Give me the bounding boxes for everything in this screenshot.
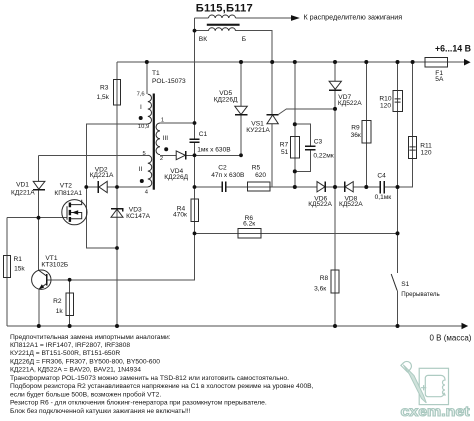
diode VD6 xyxy=(317,182,325,192)
svg-text:R3: R3 xyxy=(100,84,109,91)
transformer T1 core xyxy=(153,94,155,190)
cxem.net watermark logo xyxy=(401,361,471,419)
svg-text:R7: R7 xyxy=(280,141,289,148)
junction node source net corner xyxy=(115,246,119,250)
resistor R11 inner dashes xyxy=(409,147,415,150)
svg-text:КД522А: КД522А xyxy=(308,201,332,208)
capacitor C2 xyxy=(222,182,226,193)
diode VD1 xyxy=(33,181,45,189)
svg-text:0 В (масса): 0 В (масса) xyxy=(430,333,472,342)
transistor VT2 source arrow xyxy=(72,210,78,215)
svg-text:R2: R2 xyxy=(53,298,62,305)
transformer T1 winding II xyxy=(148,155,152,187)
resistor R11 xyxy=(409,136,417,158)
svg-text:120: 120 xyxy=(421,150,432,157)
wire R6 horizontal y=233.4 xyxy=(195,232,398,234)
svg-text:К распределителю зажигания: К распределителю зажигания xyxy=(304,13,403,22)
svg-text:1,5k: 1,5k xyxy=(97,94,110,101)
wire R11 line x=412.6 xyxy=(398,62,413,187)
svg-text:1мк x 630В: 1мк x 630В xyxy=(197,146,231,153)
wire C3 parallel loop xyxy=(295,124,311,171)
svg-text:Блок без подключенной катушки: Блок без подключенной катушки зажигания … xyxy=(10,407,191,415)
thyristor VS1 xyxy=(267,114,279,116)
diode VD7 xyxy=(329,81,341,89)
svg-text:КС147А: КС147А xyxy=(126,213,151,220)
svg-text:R11: R11 xyxy=(420,142,432,149)
transformer T1 winding III xyxy=(156,123,160,155)
wire VT2 gate / R1 top xyxy=(7,218,67,326)
wire y=187 center segment C2 R5 VD6 VD8 C4 xyxy=(195,186,413,188)
svg-text:C3: C3 xyxy=(314,138,323,145)
svg-text:КД226Д = FR306, FR307, BY500: КД226Д = FR306, FR307, BY500-800, BY500-… xyxy=(10,358,160,365)
svg-text:КД226Д: КД226Д xyxy=(164,174,188,181)
resistor R6 xyxy=(238,229,261,239)
svg-text:R10: R10 xyxy=(379,95,391,102)
wire VD1/VT1 collector line x=38.5 xyxy=(38,155,40,270)
transistor VT1 internals xyxy=(39,270,47,276)
junction nodes R7 C3 xyxy=(293,122,297,126)
wire winding I bottom to VT2 drain net x=86.3 xyxy=(86,124,148,248)
wire R10 line x=397.5 xyxy=(397,62,399,187)
svg-text:cxem.net: cxem.net xyxy=(401,404,471,419)
svg-text:C4: C4 xyxy=(377,173,386,180)
transformer T1 polarity dot winding I xyxy=(139,116,143,120)
resistor R10 xyxy=(393,91,403,112)
switch S1 blade xyxy=(391,274,397,290)
svg-text:POL-15073: POL-15073 xyxy=(152,78,186,85)
svg-text:C1: C1 xyxy=(199,131,208,138)
svg-text:КТ3102Б: КТ3102Б xyxy=(41,262,68,269)
capacitor C1 xyxy=(189,139,199,142)
svg-text:51: 51 xyxy=(281,149,289,156)
transistor VT2 channel dashes xyxy=(69,203,71,222)
svg-text:5: 5 xyxy=(143,151,146,157)
svg-text:S1: S1 xyxy=(401,281,409,288)
svg-text:1: 1 xyxy=(161,118,164,124)
svg-text:КП812А1: КП812А1 xyxy=(54,190,82,197)
wire R7 line x=294.8 xyxy=(294,62,296,187)
svg-text:VT2: VT2 xyxy=(60,183,72,190)
capacitor C4 xyxy=(380,181,384,193)
capacitor C3 xyxy=(305,146,316,150)
svg-text:C2: C2 xyxy=(218,165,227,172)
svg-text:5А: 5А xyxy=(435,76,444,83)
junction node VT2 gate / VD1 line xyxy=(37,216,41,220)
junction node VS1 gate / VD7 xyxy=(333,107,337,111)
svg-text:R1: R1 xyxy=(14,256,23,263)
svg-text:КД522А: КД522А xyxy=(338,100,362,107)
arrow ground bus xyxy=(462,323,469,330)
svg-text:Резистор R6 - для отключения б: Резистор R6 - для отключения блокинг-ген… xyxy=(10,399,267,407)
diode VD5 xyxy=(235,106,248,114)
svg-text:R9: R9 xyxy=(351,124,360,131)
transistor VT2 source link xyxy=(71,213,82,219)
wire VD7 R8 line x=335 xyxy=(334,62,336,326)
resistor R7 xyxy=(290,136,299,158)
resistor R10 inner dashes xyxy=(395,99,401,102)
resistor R8 xyxy=(331,270,339,293)
wire R9 line x=366.3 xyxy=(365,62,367,187)
wire coil primary leads xyxy=(195,31,273,62)
zener diode VD3 xyxy=(111,209,123,217)
svg-text:470к: 470к xyxy=(173,212,187,219)
resistor R9 xyxy=(362,120,371,143)
wire VD5 line x=241 xyxy=(240,62,242,155)
svg-text:R5: R5 xyxy=(252,165,261,172)
diode VD8 xyxy=(345,182,353,192)
svg-text:Предпочтительная замена импорт: Предпочтительная замена импортными анало… xyxy=(10,334,171,341)
wire R3/VD3 vertical line x=117 xyxy=(116,62,118,326)
svg-text:47п x 630В: 47п x 630В xyxy=(211,172,245,179)
transformer T1 winding I xyxy=(148,94,152,124)
svg-text:ВК: ВК xyxy=(199,36,207,43)
junction nodes on supply bus xyxy=(145,60,149,64)
resistor R2 xyxy=(66,293,74,316)
junction node VT1 base / R2 xyxy=(68,278,72,282)
svg-text:КУ221Д = ВТ151-500R, ВТ151-6: КУ221Д = ВТ151-500R, ВТ151-650R xyxy=(10,350,120,357)
svg-text:R8: R8 xyxy=(320,275,329,282)
svg-text:VD1: VD1 xyxy=(16,181,29,188)
svg-text:КД221А: КД221А xyxy=(11,190,35,197)
wire VS1 anode-cathode line x=272.2 xyxy=(271,62,273,187)
junction nodes ground bus xyxy=(37,324,41,328)
wire coil secondary left stub xyxy=(195,17,209,19)
fuse F1 xyxy=(425,58,448,68)
wire winding III pin1 to C1 line xyxy=(160,122,195,124)
ignition coil core xyxy=(207,24,240,26)
resistor R4 xyxy=(191,199,199,222)
junction nodes on wire y=187 xyxy=(84,185,88,189)
svg-text:КП812А1 = IRF1407, IRF2807, IR: КП812А1 = IRF1407, IRF2807, IRF3808 xyxy=(10,342,130,349)
ignition coil primary winding xyxy=(209,28,236,31)
wire VT1 emitter to ground xyxy=(38,289,40,326)
svg-text:T1: T1 xyxy=(152,70,160,77)
svg-text:0,1мк: 0,1мк xyxy=(375,194,392,201)
svg-text:620: 620 xyxy=(255,172,266,179)
wire coil secondary output lead xyxy=(236,17,292,19)
diode VD4 xyxy=(176,151,185,160)
junction node winding III pin1 / C1 xyxy=(193,121,197,125)
transistor VT2 circle xyxy=(62,200,87,225)
svg-text:10,9: 10,9 xyxy=(138,124,149,130)
svg-text:КД221А: КД221А xyxy=(90,172,114,179)
svg-text:0,22мк: 0,22мк xyxy=(313,152,333,159)
svg-text:КУ221А: КУ221А xyxy=(246,127,270,134)
svg-text:120: 120 xyxy=(380,103,391,110)
svg-text:КД522А: КД522А xyxy=(339,201,363,208)
wire node line y=155.3 oscillator feedback xyxy=(39,154,242,156)
svg-text:2: 2 xyxy=(160,156,163,162)
diode VD2 xyxy=(99,181,107,192)
svg-text:7,6: 7,6 xyxy=(137,92,145,98)
wire R2 line xyxy=(69,280,71,326)
arrow supply +6..14V xyxy=(464,59,471,66)
svg-text:I: I xyxy=(140,104,142,111)
junction nodes on wire y=155 xyxy=(193,153,197,157)
svg-text:III: III xyxy=(163,135,169,142)
svg-text:Прерыватель: Прерыватель xyxy=(401,291,440,298)
resistor R3 xyxy=(114,80,121,105)
transistor VT1 circle xyxy=(32,270,51,289)
transistor VT2 gate bar xyxy=(66,206,68,219)
wire through fuse F1 xyxy=(425,61,448,63)
transformer T1 polarity dot winding III xyxy=(164,147,168,151)
svg-text:15k: 15k xyxy=(14,266,25,273)
svg-text:КД226Д: КД226Д xyxy=(214,97,238,104)
svg-text:Трансформатор POL-15073 можно: Трансформатор POL-15073 можно заменить н… xyxy=(10,375,289,382)
wire winding I feed from bus xyxy=(146,62,148,94)
wire VS1 gate to VD7 line xyxy=(279,109,287,115)
resistor R1 xyxy=(3,256,10,278)
svg-text:КД221А, КД522А = BAV20, BAV2: КД221А, КД522А = BAV20, BAV21, 1N4934 xyxy=(10,367,141,374)
resistor R5 xyxy=(248,182,270,191)
svg-text:3,6к: 3,6к xyxy=(314,286,326,293)
svg-text:Б: Б xyxy=(242,36,246,43)
svg-text:Б115,Б117: Б115,Б117 xyxy=(196,2,253,14)
svg-text:4: 4 xyxy=(145,189,149,195)
junction node coil common BK xyxy=(193,29,197,33)
wire S1 line below node xyxy=(397,187,399,326)
svg-text:1k: 1k xyxy=(56,308,64,315)
svg-text:36к: 36к xyxy=(351,132,361,139)
wire ground bus y=326 xyxy=(7,325,462,327)
svg-text:Подбором резистора R2 устанавл: Подбором резистора R2 устанавливается на… xyxy=(10,382,314,390)
junction nodes R6 wire xyxy=(193,232,197,236)
arrow to ignition distributor xyxy=(291,15,300,21)
transformer T1 polarity dot winding II xyxy=(140,179,144,183)
svg-text:II: II xyxy=(139,166,143,173)
ignition coil secondary winding xyxy=(209,15,236,18)
svg-text:+6...14 В: +6...14 В xyxy=(435,43,471,53)
transistor VT2 drain link xyxy=(71,200,82,205)
note text block xyxy=(10,334,314,415)
svg-text:если будет больше 500В, возмож: если будет больше 500В, возможен пробой … xyxy=(10,390,161,398)
wire y=187 left segment VD2 to winding II xyxy=(86,186,148,188)
svg-text:6.2к: 6.2к xyxy=(243,221,255,228)
wire top supply bus y=62 xyxy=(117,61,465,63)
wire ignition coil common lead / C1 / R4 line x=194.5 xyxy=(47,18,195,280)
